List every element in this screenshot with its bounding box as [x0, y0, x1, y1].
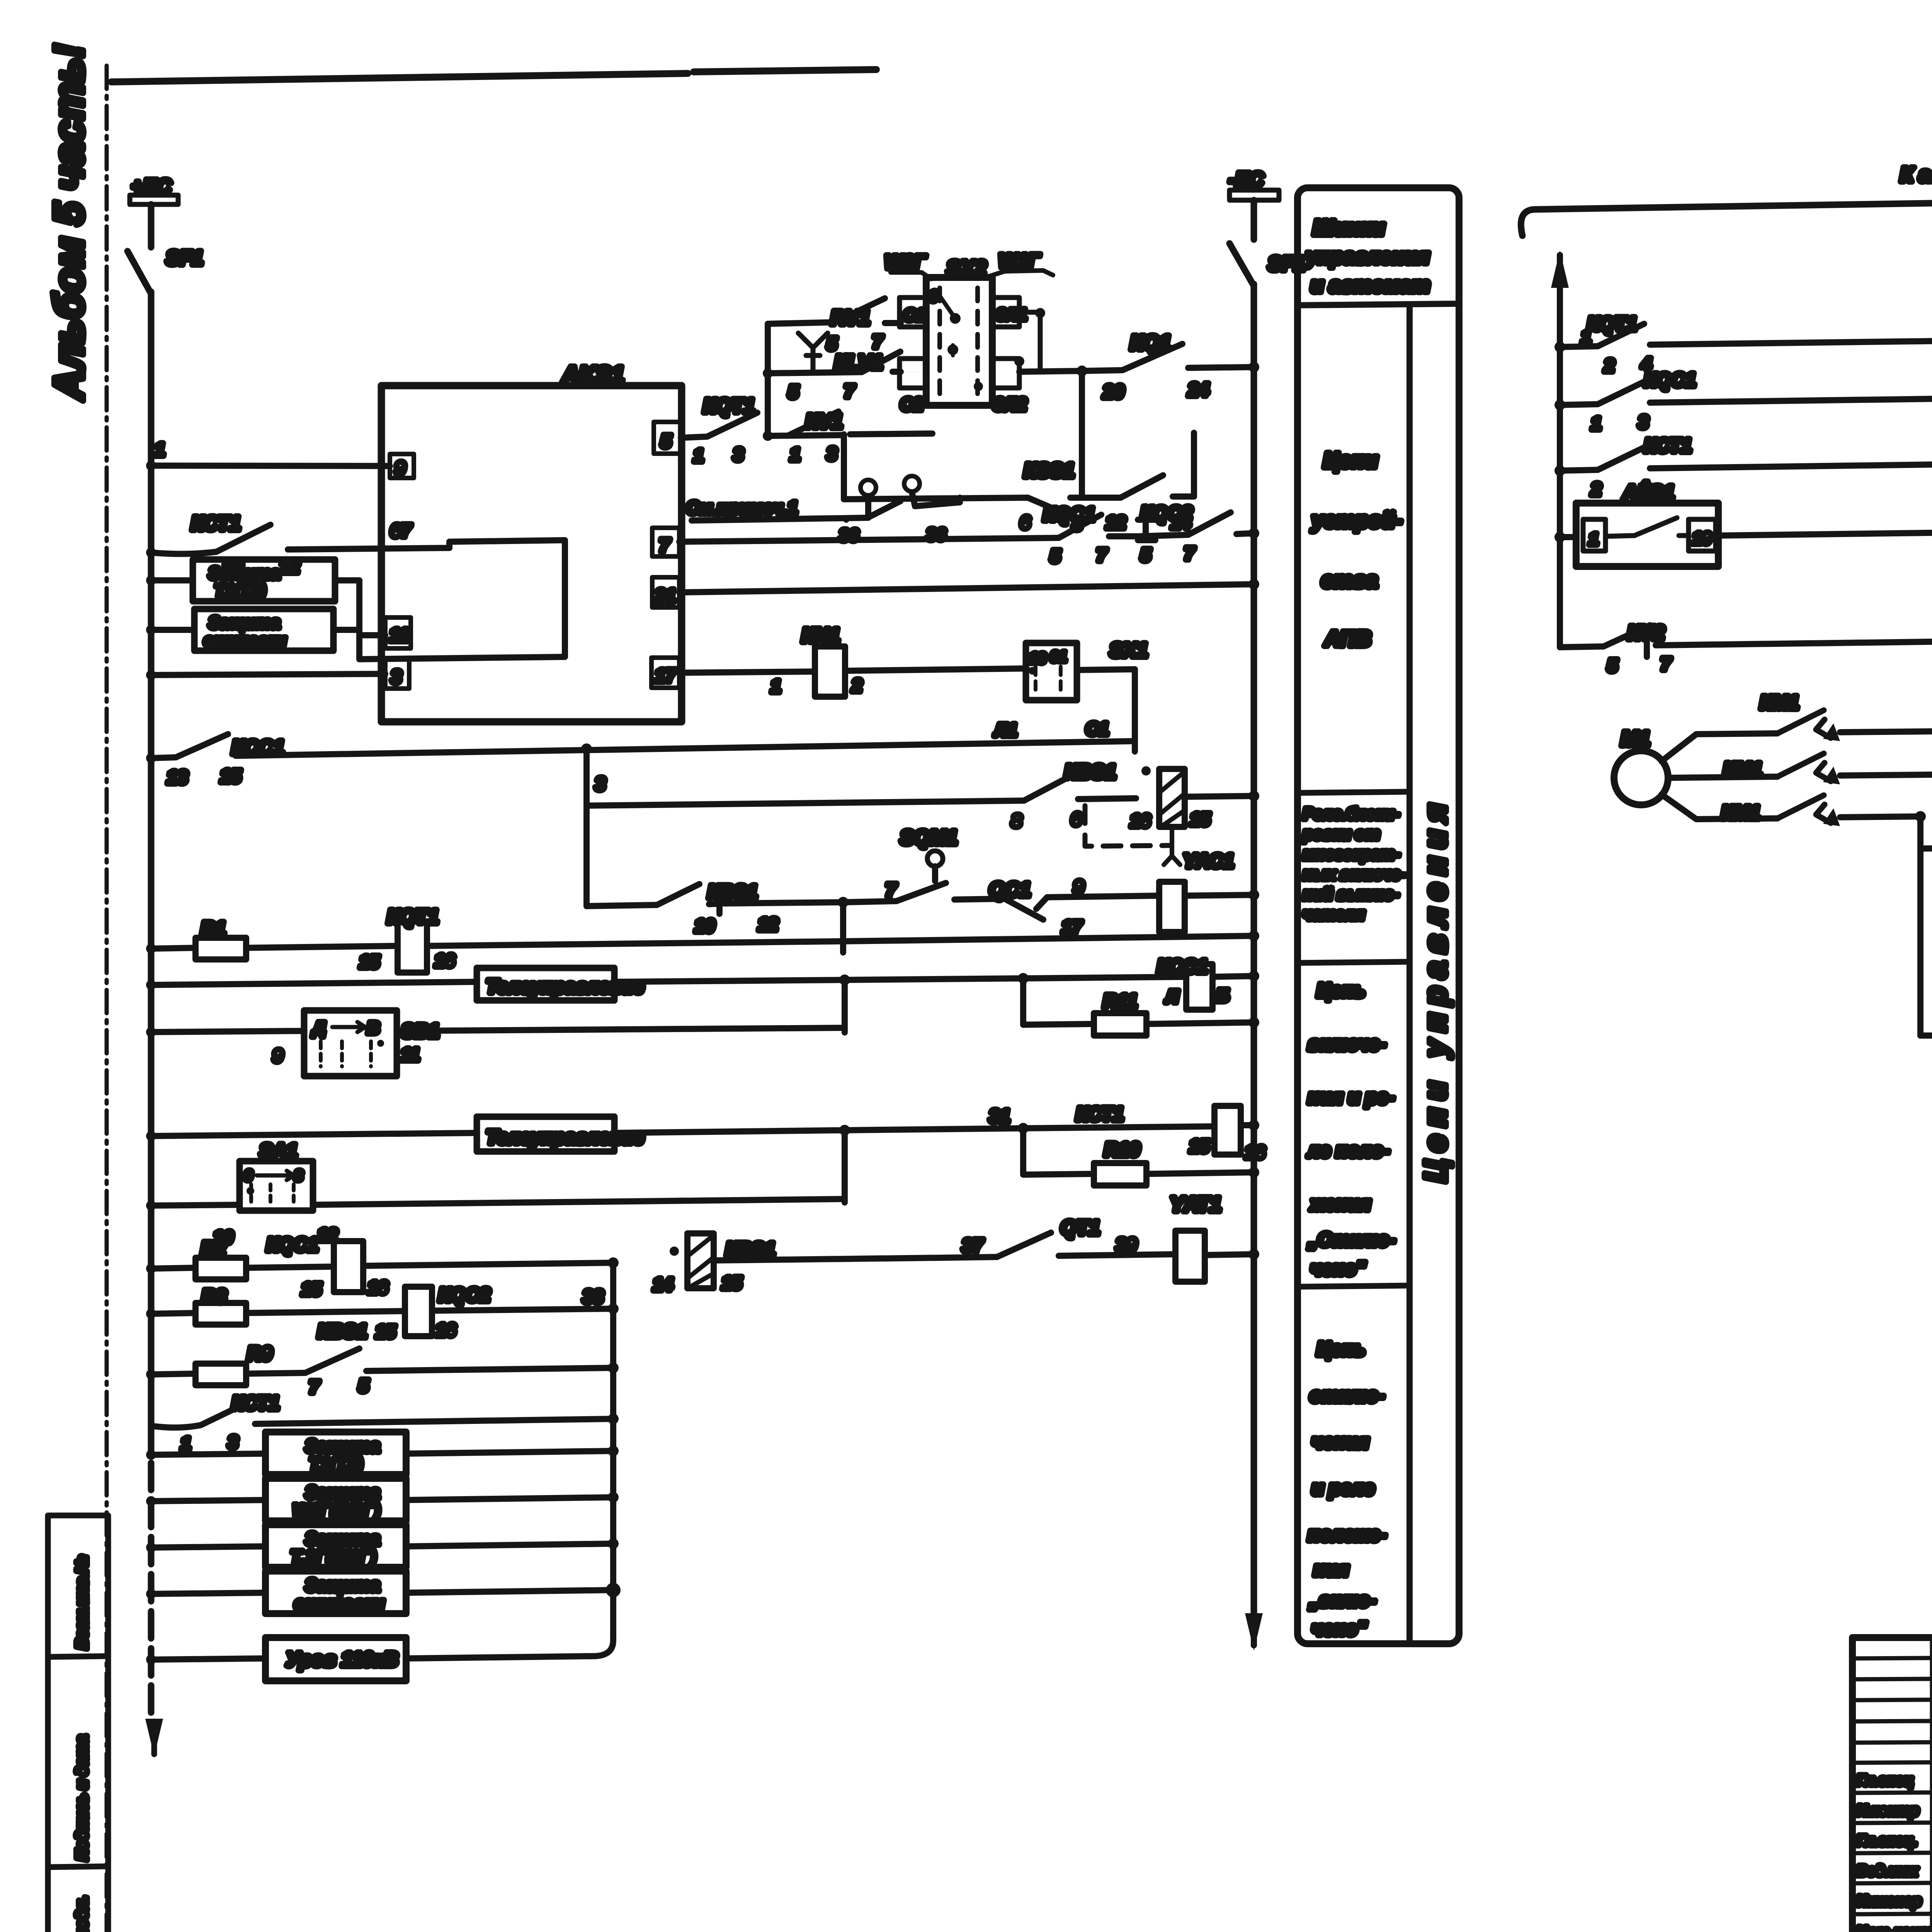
wire: line to breaker SF1 (top) [1521, 163, 1932, 236]
svg-text:КМ1: КМ1 [1723, 759, 1762, 780]
svg-text:С2: С2 [900, 394, 923, 414]
svg-text:КСТ1: КСТ1 [232, 1392, 279, 1414]
legend inner divider [1406, 305, 1413, 1642]
contact KQC1 (5-7) on pin7 rung [679, 503, 1138, 566]
svg-text:13: 13 [167, 767, 188, 788]
wire AKS1 pin 17 rung [679, 672, 814, 673]
wire M1 phase B [1668, 777, 1777, 778]
side cell text Инв.№ подл. [73, 1896, 90, 1932]
label W2G with leader [885, 251, 931, 279]
wire M1 phase A [1662, 733, 1777, 761]
motor M1 [1614, 727, 1668, 805]
svg-text:Защита: Защита [305, 1529, 380, 1549]
svg-text:Т1(Т2): Т1(Т2) [214, 581, 265, 600]
coil YAC1 [1159, 882, 1259, 932]
svg-text:ЗЛ2: ЗЛ2 [993, 394, 1027, 414]
svg-text:8: 8 [1012, 811, 1022, 831]
svg-text:-ЕС: -ЕС [1229, 168, 1264, 191]
svg-text:5: 5 [827, 333, 837, 354]
AKS1 pin 3 [385, 659, 409, 689]
svg-text:7: 7 [659, 536, 670, 556]
svg-text:20: 20 [1103, 382, 1124, 402]
svg-text:КQС1: КQС1 [267, 1234, 318, 1255]
legend text: Цепь отключения [1308, 1338, 1386, 1639]
breaker SF1 (right pole) [1230, 200, 1305, 286]
svg-text:3: 3 [595, 774, 605, 794]
svg-text:18: 18 [1029, 650, 1046, 667]
svg-text:3: 3 [228, 1432, 238, 1452]
svg-text:Цепь: Цепь [1317, 1338, 1365, 1360]
svg-text:SQМ1: SQМ1 [900, 827, 957, 849]
protection box Защита Т1(Т2) lower [151, 1432, 619, 1475]
svg-text:12: 12 [758, 914, 778, 934]
svg-text:9: 9 [395, 458, 405, 479]
svg-text:17: 17 [655, 666, 677, 686]
svg-text:ства: ства [1321, 568, 1378, 592]
contact KCT1 (1-3) lower rung [151, 1392, 619, 1454]
svg-text:управления: управления [1305, 245, 1429, 268]
svg-text:7: 7 [1097, 545, 1107, 565]
wire AKS1 pin 21 rung [679, 584, 1254, 592]
svg-text:11: 11 [401, 1044, 420, 1065]
svg-text:С1: С1 [903, 306, 925, 325]
svg-text:КВS1: КВS1 [708, 881, 757, 903]
svg-text:3: 3 [827, 444, 837, 464]
contactor coil KM1 [1920, 987, 1932, 1063]
svg-text:15: 15 [1190, 809, 1211, 829]
junction dots on right bus [1248, 362, 1259, 1131]
svg-text:39: 39 [1116, 1235, 1137, 1255]
svg-text:Защита: Защита [209, 613, 280, 632]
svg-text:15: 15 [722, 1273, 742, 1293]
protection box Защита ошиновки lower [151, 1571, 618, 1614]
svg-text:1: 1 [790, 444, 800, 464]
svg-text:КМ1: КМ1 [1721, 802, 1760, 823]
svg-text:Н.контр: Н.контр [1857, 1803, 1918, 1819]
switch SX2 box [926, 257, 992, 405]
contact KV2 (5-7) rung [1560, 622, 1932, 675]
junction dots on left bus [146, 461, 156, 1665]
resistor R11 branch [1023, 978, 1259, 1036]
svg-text:0: 0 [929, 288, 938, 305]
svg-text:5: 5 [1607, 655, 1618, 675]
wire R1 rung right section to -EC bus [843, 917, 1259, 941]
svg-text:ния: ния [1314, 1558, 1349, 1580]
svg-text:R9: R9 [247, 1343, 272, 1364]
resistor R2 rung [151, 1238, 334, 1279]
AKS1 pin 5 [654, 422, 681, 454]
contact KBS1 (8-6) rung [587, 761, 1136, 831]
svg-text:ровки от: ровки от [1303, 825, 1379, 843]
svg-text:16: 16 [368, 1277, 388, 1298]
svg-text:чателя: чателя [1303, 905, 1364, 923]
svg-text:АПВ: АПВ [1324, 626, 1371, 651]
svg-text:W2Г: W2Г [885, 251, 927, 273]
svg-text:QТ1: QТ1 [1061, 1217, 1100, 1239]
svg-text:Защита: Защита [305, 1436, 380, 1456]
svg-text:24: 24 [1188, 380, 1209, 400]
svg-text:Защита: Защита [305, 1482, 380, 1502]
svg-text:КМ1: КМ1 [1760, 692, 1799, 713]
blocking element KBS1 (14-15 hatched) [653, 1233, 943, 1294]
svg-text:и автомат: и автомат [1311, 274, 1430, 297]
svg-text:Цепь: Цепь [1317, 980, 1365, 1001]
wire drop to KSS1 rung [844, 434, 932, 499]
svg-text:Реле.блоки-: Реле.блоки- [1303, 804, 1400, 823]
svg-text:17: 17 [1062, 917, 1083, 937]
resistor R3 rung [151, 1286, 405, 1325]
svg-text:К автомату SF1: К автомату SF1 [1900, 163, 1932, 186]
svg-text:2: 2 [1591, 479, 1601, 499]
node junction (1587) R2 rung [608, 1257, 619, 1268]
node junction (2648) tele rung 2 [845, 1106, 1214, 1134]
svg-text:67: 67 [390, 521, 412, 541]
svg-text:чено": чено" [1312, 1618, 1367, 1639]
GOST side cells bottom-left [48, 1515, 108, 1932]
rotated album title "Альбом 5 часть!" [45, 44, 92, 401]
svg-text:10: 10 [695, 916, 715, 936]
node vertical collector (x1587) [610, 1263, 616, 1640]
AKS1 pin 7 [652, 528, 679, 556]
contact KQT1 (1-3) on pin5 rung [681, 395, 844, 466]
contact KCT1 (2-4) right rung [1560, 435, 1932, 499]
svg-text:33: 33 [583, 1287, 604, 1307]
AKS1 pin 17 [651, 658, 679, 688]
svg-text:включе-: включе- [1308, 1033, 1386, 1054]
svg-text:16: 16 [435, 951, 455, 971]
svg-text:Д: Д [311, 1019, 325, 1037]
svg-text:3: 3 [1638, 412, 1648, 432]
wire node to pin 11 [359, 580, 385, 659]
contact KCC1 (13-15) rung [151, 734, 1135, 788]
protection box Защита Т2Г(W1Г) [151, 1525, 619, 1567]
svg-text:16: 16 [1130, 811, 1150, 831]
svg-text:Уров 110кВ: Уров 110кВ [286, 1648, 398, 1671]
svg-text:Телеуправление: Телеуправление [486, 1126, 644, 1148]
svg-text:7: 7 [1184, 543, 1195, 563]
svg-text:чения: чения [1312, 1431, 1369, 1452]
svg-text:R11: R11 [1103, 990, 1137, 1012]
svg-text:Вед.инж: Вед.инж [1857, 1863, 1918, 1879]
legend header text [1298, 215, 1459, 305]
svg-text:Т1(Т2): Т1(Т2) [309, 1454, 362, 1474]
svg-text:Шинки: Шинки [1313, 215, 1384, 240]
AKS1 pin 9 [390, 454, 414, 479]
svg-text:15: 15 [1189, 1136, 1210, 1156]
relay coil KH1 (1-2) [771, 624, 1027, 697]
wire: right-circuit left bus with arrow [1551, 250, 1569, 647]
node C-phase tap junction [1915, 811, 1926, 1036]
svg-text:0: 0 [244, 1168, 252, 1184]
node A vertical (x1987) [763, 324, 773, 441]
legend text: Цепи устройства АПВ [1298, 448, 1410, 793]
legend text: Реле блокировки [1298, 804, 1410, 963]
contactor KM1 pole A [1760, 692, 1932, 741]
svg-text:15: 15 [301, 1279, 322, 1299]
svg-text:чено": чено" [1311, 1258, 1366, 1279]
svg-text:Т.2Г(W1Г): Т.2Г(W1Г) [291, 1547, 376, 1567]
arrow at bottom of right bus [1245, 1613, 1263, 1651]
svg-text:7: 7 [844, 381, 855, 401]
wire bus to AKS1 pin 9 [151, 440, 390, 466]
svg-text:См.примеч.1: См.примеч.1 [686, 498, 798, 518]
node at 2800 on C2 rung [1077, 366, 1087, 498]
svg-text:1: 1 [181, 1434, 191, 1454]
protection box Уров 110кВ [151, 1638, 613, 1681]
relay coil KCT1 [1076, 1103, 1265, 1162]
contactor KM1 pole B [1723, 753, 1932, 784]
wire bus to AKS1 pin 3 [151, 674, 385, 675]
svg-text:1: 1 [1591, 413, 1601, 434]
relay unit AKS1 (right) with contact 1-19 [1560, 481, 1932, 566]
relay coil KCC1 (Л-Б) [1157, 956, 1259, 1010]
svg-text:КСТ1: КСТ1 [1644, 435, 1692, 456]
wire: left DC bus vertical [148, 292, 155, 1723]
svg-text:КВS1: КВS1 [1065, 761, 1116, 783]
svg-text:Цепи: Цепи [1323, 448, 1378, 472]
contact KQ1 (20-24) [1082, 331, 1254, 402]
blocking element KBS1 (16-15 hatched) [1130, 766, 1259, 831]
signature table grid [1852, 1638, 1932, 1932]
svg-text:КQС1: КQС1 [1644, 369, 1696, 391]
switch SX1 box [994, 639, 1148, 740]
svg-text:15: 15 [359, 952, 380, 972]
svg-text:Подпись и дата: Подпись и дата [73, 1735, 90, 1861]
svg-text:ошиновки: ошиновки [294, 1593, 384, 1613]
svg-text:5: 5 [1050, 546, 1061, 566]
svg-text:Защита: Защита [305, 1575, 380, 1595]
svg-text:Л1: Л1 [994, 720, 1017, 740]
telecontrol box 2 [151, 1117, 845, 1151]
svg-text:1: 1 [694, 446, 704, 466]
svg-text:3: 3 [733, 444, 743, 464]
svg-text:Альбом 5 часть!: Альбом 5 часть! [45, 44, 92, 401]
legend text: Цепь включения [1298, 980, 1410, 1287]
side cell text Взам.инв.№ [73, 1556, 90, 1649]
contact KQC2 (5-7) on pin7 rung [1138, 502, 1254, 565]
svg-text:31: 31 [989, 1106, 1010, 1127]
svg-text:Б: Б [1216, 985, 1229, 1005]
svg-text:и реле: и реле [1312, 1477, 1374, 1499]
svg-text:YАТ1: YАТ1 [1170, 1193, 1221, 1216]
node +EC bus terminal [130, 175, 178, 204]
svg-text:SХ1: SХ1 [1110, 639, 1148, 662]
svg-text:7: 7 [1661, 654, 1672, 674]
svg-text:6: 6 [1071, 809, 1081, 829]
svg-text:КQС2: КQС2 [439, 1284, 490, 1306]
wire M1 phase C [1662, 794, 1777, 819]
note jumper 36-36 (см.примеч.1) [686, 476, 960, 545]
legend vertical text Цепи управления (center) [1418, 804, 1452, 1182]
svg-text:КСТ1: КСТ1 [191, 512, 241, 535]
svg-text:Инженер: Инженер [1857, 1893, 1921, 1909]
contact KSS1 (6-8) [932, 459, 1082, 534]
relay coil KQC2 lower [376, 1284, 619, 1342]
svg-text:8: 8 [294, 1168, 303, 1184]
svg-text:15: 15 [376, 1321, 396, 1342]
svg-text:R10: R10 [1104, 1139, 1140, 1160]
node junction (2186) on tele rung 1 [839, 975, 850, 1032]
svg-text:„вклю-: „вклю- [1309, 1589, 1376, 1611]
contact KBS1 (7-5) [305, 1320, 619, 1397]
svg-text:5: 5 [359, 1376, 369, 1396]
svg-text:ных включе-: ных включе- [1303, 865, 1406, 883]
svg-text:КВS1: КВS1 [318, 1320, 367, 1342]
contact KV1 (1-3) on pin5 rung [788, 410, 932, 464]
svg-text:9: 9 [1073, 877, 1084, 898]
svg-text:отклю-: отклю- [1310, 1384, 1384, 1406]
SX2 tab ZL2 [992, 356, 1082, 414]
contact KQC1 (1-3) right rung [1560, 369, 1932, 434]
protection box Защита W1Г(W2Г) [151, 1478, 619, 1521]
svg-text:М1: М1 [1621, 727, 1650, 750]
svg-text:Инв.№подл.: Инв.№подл. [73, 1896, 90, 1932]
svg-text:6: 6 [1020, 512, 1030, 532]
wire SX1 C1 return [1077, 669, 1135, 752]
contact QC1 (9) [954, 877, 1159, 920]
svg-text:15: 15 [220, 766, 241, 787]
svg-text:21: 21 [655, 586, 675, 606]
telecontrol box 1 [151, 968, 845, 1000]
resistor R1 [151, 918, 398, 959]
SX2 tab C2 [900, 359, 926, 414]
svg-text:1: 1 [771, 676, 781, 696]
svg-text:жения: жения [1310, 1193, 1371, 1214]
svg-text:5: 5 [788, 382, 799, 402]
contactor KM1 pole C [1721, 795, 1920, 826]
arrow at bottom of left bus [145, 1719, 163, 1756]
label W1G with leader [983, 250, 1053, 278]
svg-text:14: 14 [653, 1274, 673, 1294]
svg-text:01: 01 [1050, 649, 1066, 665]
SX2 tab ZL1 [992, 298, 1045, 372]
svg-text:„Отклю-: „Отклю- [1308, 1229, 1395, 1250]
AKS1 pin 11 [385, 617, 411, 648]
svg-text:1: 1 [1589, 530, 1598, 549]
resistor R10 branch [1023, 1128, 1259, 1185]
central legend column box [1298, 188, 1459, 1644]
svg-text:Взам.инв.№: Взам.инв.№ [73, 1556, 90, 1649]
svg-text:YАС1: YАС1 [1183, 850, 1234, 872]
top frame border line [111, 70, 876, 82]
left frame border (dash-dot) [105, 66, 109, 1932]
svg-text:16: 16 [436, 1320, 456, 1340]
protection box Защита Т1(Т2) upper [151, 560, 359, 601]
svg-text:Гл.спец.: Гл.спец. [1857, 1833, 1917, 1849]
svg-text:SF1: SF1 [166, 247, 203, 269]
side cell text Подпись и дата [73, 1735, 90, 1861]
svg-text:ле поло-: ле поло- [1307, 1139, 1389, 1161]
svg-text:Защита: Защита [209, 564, 280, 583]
svg-text:КQТ1: КQТ1 [703, 395, 755, 417]
svg-text:В: В [367, 1019, 379, 1037]
relay coil KQT1 [359, 906, 843, 973]
dashed link contact to YAC1 [1085, 806, 1234, 872]
relay KLV1 float symbol [798, 333, 883, 374]
signature table names [1857, 1772, 1932, 1932]
svg-text:многократ-: многократ- [1303, 845, 1400, 863]
svg-text:устрой-: устрой- [1311, 508, 1402, 532]
svg-text:11: 11 [389, 625, 409, 646]
node 3 drop [581, 743, 605, 906]
breaker SF1 (left pole) on +EC riser [128, 204, 203, 294]
svg-text:9: 9 [273, 1046, 283, 1066]
relay box AKS1 (left unit) [381, 362, 682, 722]
svg-text:1: 1 [155, 440, 165, 460]
svg-text:ний выклю-: ний выклю- [1303, 885, 1399, 903]
contact KQT1 (2-4) right rung [1560, 313, 1932, 376]
svg-text:7: 7 [872, 332, 883, 352]
contact KLV1 (5-7) on C2 rung [768, 352, 901, 402]
svg-text:КSS1: КSS1 [1024, 459, 1074, 482]
svg-text:2: 2 [1604, 355, 1614, 376]
selector switch SA1 [151, 1140, 845, 1247]
svg-text:Чрт-конт: Чрт-конт [1857, 1924, 1932, 1932]
svg-text:5: 5 [1141, 545, 1151, 565]
node junction (2186) tele rung 2 [839, 1125, 850, 1202]
command switch SB1 [151, 1010, 845, 1076]
svg-text:5: 5 [661, 431, 672, 452]
contact QT1 (37-39) [943, 1217, 1175, 1258]
wire C tap to SB1 [1920, 846, 1932, 866]
contact KLV1 (12-14) with latch [1082, 433, 1194, 540]
resistor R9 rung [151, 1343, 305, 1385]
coil YAT1 [1170, 1193, 1259, 1282]
contact RV1 (5-7) upper rung [768, 298, 901, 354]
wire 67 jog [359, 521, 565, 659]
node junction x2182 [838, 897, 849, 952]
AKS1 pin 21 [652, 577, 679, 607]
SX2 tab C1 [900, 298, 926, 327]
svg-text:Гл.спец: Гл.спец [1857, 1772, 1913, 1789]
svg-text:19: 19 [1692, 529, 1711, 548]
node junction (2648) on tele rung 1 [845, 973, 1186, 984]
wire: right DC bus vertical [1251, 284, 1257, 1629]
svg-text:ошиновки: ошиновки [204, 631, 286, 649]
svg-text:W1Г(W2Г): W1Г(W2Г) [293, 1500, 380, 1520]
svg-text:37: 37 [962, 1236, 984, 1256]
svg-text:12: 12 [1106, 512, 1126, 532]
svg-text:2: 2 [852, 675, 862, 696]
travel switch SQM1 (7) [843, 827, 957, 902]
svg-text:Л: Л [1165, 986, 1179, 1007]
svg-text:7: 7 [886, 880, 897, 901]
protection box Защита ошиновки upper [151, 609, 359, 651]
svg-text:КQС2: КQС2 [1141, 502, 1192, 524]
svg-text:Цепи управления: Цепи управления [1418, 804, 1452, 1182]
contact KBS1 (10-12) lower rung [587, 881, 843, 936]
svg-text:С1: С1 [1086, 719, 1109, 739]
svg-text:7: 7 [309, 1377, 320, 1397]
relay coil KQC1 lower [267, 1234, 613, 1299]
contact KCT1 (10-12) rung [151, 512, 449, 578]
svg-text:3: 3 [391, 667, 401, 687]
node -EC bus terminal [1229, 168, 1279, 200]
svg-text:ния и ре-: ния и ре- [1308, 1086, 1395, 1108]
svg-text:положе-: положе- [1308, 1524, 1386, 1545]
wire KSS1 rung to node (2800) [1082, 372, 1082, 433]
svg-text:КСТ1: КСТ1 [1076, 1103, 1124, 1125]
